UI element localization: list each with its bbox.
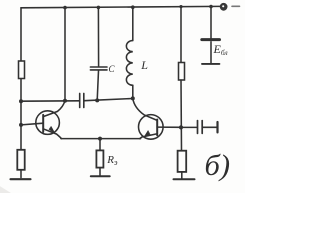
svg-text:C: C bbox=[109, 64, 116, 74]
svg-text:L: L bbox=[140, 58, 148, 72]
svg-text:Eбл: Eбл bbox=[213, 42, 228, 57]
svg-text:Rэ: Rэ bbox=[106, 154, 118, 167]
svg-text:б): б) bbox=[205, 149, 231, 182]
